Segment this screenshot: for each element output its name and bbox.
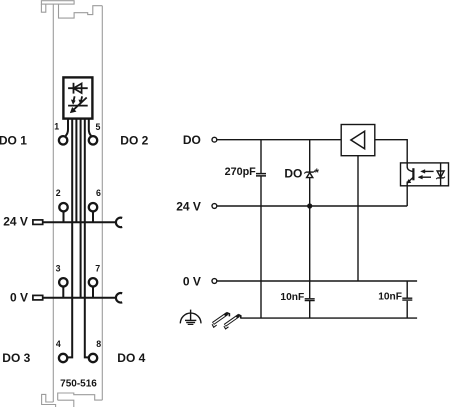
24V male connector symbol bbox=[33, 220, 43, 225]
svg-text:0 V: 0 V bbox=[183, 274, 201, 288]
svg-text:10nF: 10nF bbox=[378, 292, 402, 303]
module housing outline bottom profile bbox=[42, 393, 103, 407]
capacitor C1 270pF vertical wire bbox=[260, 140, 262, 318]
wire to contact 5 bbox=[89, 119, 91, 136]
svg-text:1: 1 bbox=[54, 122, 59, 132]
contact 6 bbox=[89, 203, 97, 211]
svg-text:24 V: 24 V bbox=[3, 214, 28, 228]
svg-text:DO: DO bbox=[284, 166, 302, 180]
svg-text:750-516: 750-516 bbox=[60, 379, 97, 390]
stub contact 2 to 24V line bbox=[63, 212, 65, 222]
svg-text:8: 8 bbox=[96, 339, 101, 349]
svg-text:3: 3 bbox=[56, 264, 61, 274]
DIN rail clamp symbol bbox=[212, 313, 241, 329]
svg-text:2: 2 bbox=[56, 188, 61, 198]
earth ground symbol bbox=[180, 310, 201, 325]
0V terminal bbox=[212, 279, 217, 284]
capacitor C3 10nF plates bbox=[402, 298, 412, 300]
wire amp bottom to 0V rail bbox=[357, 156, 359, 281]
module 750-516 housing outline top profile bbox=[41, 1, 102, 18]
contact 5 bbox=[89, 136, 97, 144]
suppressor diode V1 wire lower / 10nF C2 wire bbox=[309, 178, 311, 319]
wire to contact 4 bbox=[68, 119, 73, 358]
svg-text:270pF: 270pF bbox=[225, 166, 257, 178]
status LED box U1 bbox=[63, 77, 92, 118]
wire to contact 1 bbox=[66, 119, 68, 136]
24V rail wire bbox=[217, 205, 407, 207]
svg-text:5: 5 bbox=[96, 122, 101, 132]
svg-text:DO: DO bbox=[183, 133, 201, 147]
suppressor diode V1 wire upper bbox=[309, 140, 311, 172]
24V terminal bbox=[212, 204, 217, 209]
module left edge bbox=[52, 4, 54, 402]
contact 1 bbox=[59, 136, 67, 144]
diode D1 inside LED box bbox=[68, 83, 88, 94]
wire to 24V rail bbox=[75, 119, 77, 223]
svg-text:DO 3: DO 3 bbox=[2, 351, 30, 365]
24V female connector symbol bbox=[116, 218, 122, 228]
capacitor C2 10nF plates bbox=[305, 299, 315, 301]
driver amplifier U2 box bbox=[341, 125, 375, 156]
stub contact 3 to 0V line bbox=[62, 287, 64, 298]
optocoupler LED bbox=[436, 163, 445, 186]
optocoupler U3 box bbox=[401, 163, 449, 186]
contact 4 bbox=[59, 354, 67, 362]
svg-text:10nF: 10nF bbox=[280, 292, 304, 303]
capacitor C3 10nF wire bbox=[406, 281, 408, 318]
contact 7 bbox=[89, 278, 97, 286]
svg-text:0 V: 0 V bbox=[10, 291, 28, 305]
suppressor diode V1 bbox=[304, 171, 315, 178]
LED D2 inside LED box bbox=[68, 96, 88, 112]
0V feed line bbox=[43, 297, 117, 299]
capacitor C1 270pF plates bbox=[256, 174, 266, 176]
contact 3 bbox=[59, 278, 67, 286]
wire to contact 8 bbox=[85, 119, 89, 358]
0V female connector symbol bbox=[116, 293, 122, 303]
svg-text:7: 7 bbox=[95, 263, 100, 273]
wire optocoupler to 24V rail end bbox=[406, 186, 408, 206]
stub contact 6 to 24V line bbox=[92, 212, 94, 222]
wire to 0V rail bbox=[80, 119, 82, 298]
optocoupler phototransistor bbox=[407, 163, 414, 186]
junction dot on 24V rail bbox=[307, 203, 312, 208]
driver amplifier U2 triangle bbox=[351, 131, 365, 149]
contact 8 bbox=[89, 354, 97, 362]
shield rail wire bbox=[240, 317, 417, 319]
optocoupler light arrows bbox=[418, 170, 434, 180]
svg-text:DO 4: DO 4 bbox=[117, 351, 145, 365]
DO rail wire bbox=[217, 139, 341, 141]
wire amp output to optocoupler bbox=[375, 140, 407, 163]
svg-text:DO 1: DO 1 bbox=[0, 134, 27, 148]
svg-text:24 V: 24 V bbox=[176, 199, 201, 213]
svg-text:4: 4 bbox=[56, 339, 61, 349]
module right edge bbox=[101, 6, 103, 400]
svg-text:6: 6 bbox=[96, 188, 101, 198]
contact 2 bbox=[59, 203, 67, 211]
svg-text:DO 2: DO 2 bbox=[120, 134, 148, 148]
schematic: DO terminal bbox=[212, 137, 217, 142]
svg-text:*: * bbox=[315, 167, 320, 179]
24V feed line bbox=[43, 221, 117, 223]
0V rail wire bbox=[217, 280, 417, 282]
stub contact 7 to 0V line bbox=[92, 287, 94, 298]
0V male connector symbol bbox=[33, 295, 43, 300]
